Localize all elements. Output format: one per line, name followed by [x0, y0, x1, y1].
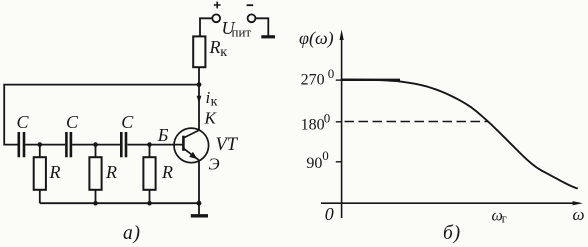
svg-text:б): б)	[443, 223, 461, 244]
curve flat emphasis	[342, 79, 400, 81]
capacitor C2	[66, 132, 71, 157]
svg-text:Э: Э	[209, 155, 220, 174]
svg-text:φ(ω): φ(ω)	[299, 28, 334, 49]
svg-text:VT: VT	[216, 135, 239, 155]
wire row C3 to base	[128, 144, 184, 146]
wire stub R1 bottom	[39, 190, 41, 204]
node J1	[38, 142, 43, 147]
resistor Rk	[193, 36, 205, 67]
wire stub R3 bottom	[149, 190, 151, 204]
wire row C1 to C2	[25, 144, 65, 146]
svg-text:R: R	[161, 162, 173, 182]
svg-text:90: 90	[306, 155, 322, 172]
node J3	[147, 142, 152, 147]
svg-text:0: 0	[325, 204, 334, 224]
svg-text:180: 180	[301, 117, 325, 134]
svg-text:к: к	[220, 45, 227, 60]
svg-text:270: 270	[301, 71, 325, 88]
wire stub R2 bottom	[95, 190, 97, 204]
resistor R2	[89, 157, 101, 190]
transistor VT	[174, 128, 209, 163]
capacitor C1	[19, 132, 24, 157]
terminal plus circle	[212, 14, 220, 22]
tick 270	[336, 79, 342, 81]
tick 90	[336, 161, 342, 163]
svg-text:к: к	[211, 94, 218, 109]
capacitor C3	[121, 132, 126, 157]
wire from + terminal to Rk top	[200, 18, 212, 36]
curve phi(omega)	[342, 80, 577, 189]
svg-text:а): а)	[123, 223, 141, 244]
svg-text:К: К	[204, 109, 218, 128]
node rail J3	[147, 201, 152, 206]
svg-text:г: г	[502, 211, 507, 225]
resistor R3	[143, 157, 155, 190]
svg-text:C: C	[121, 112, 134, 132]
svg-text:0: 0	[324, 111, 331, 126]
node J2	[93, 142, 98, 147]
ground (emitter)	[191, 214, 208, 217]
svg-text:0: 0	[322, 148, 329, 163]
svg-text:R: R	[209, 37, 221, 57]
arrow ik	[197, 96, 202, 103]
resistor R1	[34, 157, 46, 190]
wire row C2 to C3	[72, 144, 120, 146]
wire stub R2 top	[95, 145, 97, 158]
y-axis	[341, 36, 343, 218]
svg-text:ω: ω	[573, 205, 585, 224]
node rail J2	[93, 201, 98, 206]
svg-text:C: C	[66, 112, 79, 132]
svg-text:R: R	[105, 162, 117, 182]
wire stub R1 top	[39, 145, 41, 158]
wire Rk bottom to collector	[198, 67, 200, 131]
wire bottom rail	[40, 202, 199, 204]
terminal minus circle	[248, 14, 256, 22]
wire feedback collector to C1	[4, 85, 199, 145]
tick 180	[336, 121, 342, 123]
node collector junction	[197, 82, 202, 87]
terminal + (plus sign)	[214, 2, 221, 9]
terminal - (minus sign)	[247, 4, 254, 6]
dashed line 180 level	[345, 121, 488, 123]
svg-text:R: R	[49, 162, 61, 182]
svg-text:C: C	[17, 112, 30, 132]
node rail emitter	[197, 201, 202, 206]
wire emitter down to ground	[198, 160, 200, 214]
svg-text:пит: пит	[232, 25, 252, 40]
x-axis	[321, 202, 577, 204]
svg-text:Б: Б	[157, 125, 169, 145]
ground (supply minus)	[261, 35, 275, 38]
svg-text:0: 0	[328, 66, 335, 81]
wire stub R3 top	[149, 145, 151, 158]
wire from - terminal to top ground	[256, 18, 269, 35]
